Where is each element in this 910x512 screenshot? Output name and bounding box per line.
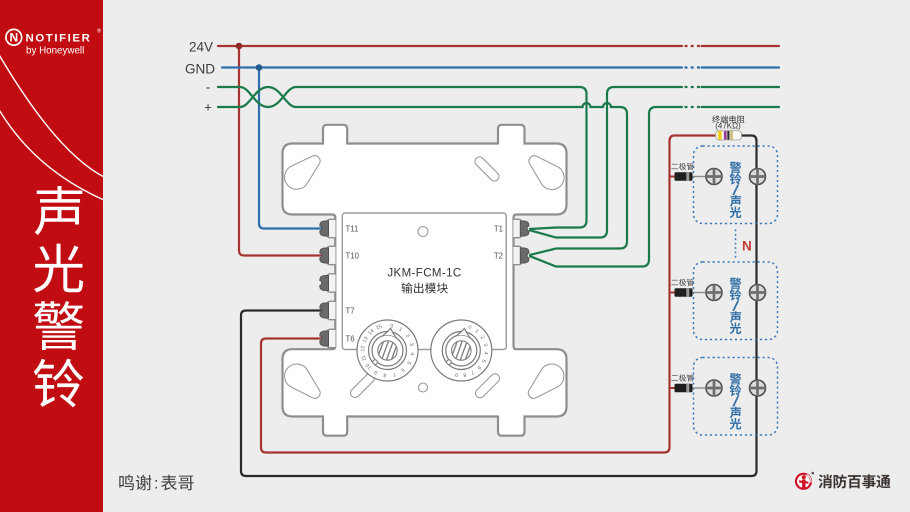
svg-text:T10: T10 (346, 252, 360, 261)
svg-text::: : (154, 476, 158, 493)
svg-text:T11: T11 (346, 225, 359, 234)
wire T6 red supply net (261, 136, 718, 453)
svg-text:+: + (204, 100, 212, 115)
terminal unlabeled (320, 274, 336, 292)
svg-text:NOTIFIER: NOTIFIER (26, 33, 92, 45)
label 二极管 (diode) (671, 163, 693, 170)
svg-text:24V: 24V (189, 40, 213, 55)
diode D3 (670, 384, 707, 393)
svg-text:12: 12 (360, 346, 366, 352)
svg-text:by Honeywell: by Honeywell (26, 46, 84, 57)
svg-text:-: - (206, 80, 210, 95)
module backplate (283, 125, 567, 436)
alarm bell 1 box 警铃/声光 (694, 146, 778, 224)
junction dot GND (256, 64, 263, 71)
ellipsis dotted line between bells (735, 230, 737, 259)
keyhole slot bottom-right (528, 364, 564, 398)
screw terminal - of bell 2 (750, 285, 766, 301)
wire T7 black return net (241, 136, 757, 477)
svg-text:T1: T1 (494, 225, 503, 234)
svg-text:GND: GND (185, 62, 215, 77)
svg-text:(47KΩ): (47KΩ) (715, 121, 741, 130)
wire GND bus (222, 66, 682, 68)
svg-text:N: N (742, 239, 752, 254)
label 二极管 (diode) (671, 279, 693, 286)
screw terminal - of bell 3 (750, 380, 766, 396)
svg-text:T6: T6 (346, 335, 355, 344)
wire loop plus with twist and hops (218, 87, 627, 255)
svg-text:JKM-FCM-1C: JKM-FCM-1C (387, 268, 461, 280)
rotary dial address high (0-15) (357, 320, 418, 381)
module top hole (418, 227, 428, 237)
NOTIFIER logo circle-N (6, 29, 22, 45)
module label 输出模块 (401, 283, 412, 294)
resistor 47K termination (716, 131, 742, 140)
oval slot top-right (475, 157, 499, 181)
wire 24V drop to T10 (239, 46, 326, 256)
plate hole bottom-center (419, 383, 428, 392)
red sidebar (0, 0, 103, 512)
svg-text:N: N (9, 31, 18, 45)
credit 鸣谢:表哥 (119, 475, 134, 491)
label 警铃/声光 (730, 373, 742, 429)
keyhole slot top-right (529, 156, 564, 190)
terminal T6 (320, 329, 336, 347)
rotary dial address low (0-9) (431, 320, 492, 381)
svg-text:T2: T2 (494, 252, 503, 261)
module JKM-FCM-1C body (342, 213, 506, 350)
screw terminal + of bell 3 (706, 380, 722, 396)
diode D1 (670, 172, 707, 181)
terminal T1 (513, 219, 529, 237)
terminal T10 (320, 246, 336, 264)
terminal T7 (320, 301, 336, 319)
消防百事通 logo icon (796, 472, 814, 489)
alarm bell 3 box 警铃/声光 (694, 358, 778, 436)
oval slot bottom-left (350, 373, 374, 397)
diode D2 (670, 288, 707, 297)
label 二极管 (diode) (671, 374, 693, 381)
wire loop plus return to T2 (530, 107, 682, 267)
label 警铃/声光 (730, 278, 742, 334)
wire GND drop to T11 (259, 68, 326, 229)
svg-text:®: ® (97, 28, 101, 35)
消防百事通 wordmark (818, 474, 832, 488)
sidebar title 声光警铃 (35, 186, 83, 235)
sidebar arc swoosh 1 (0, 53, 104, 177)
label 警铃/声光 (730, 162, 742, 218)
screw terminal + of bell 1 (706, 169, 722, 185)
junction dot 24V (236, 43, 243, 50)
keyhole slot top-left (285, 156, 321, 190)
terminal T2 (513, 246, 529, 264)
oval slot bottom-right (475, 374, 499, 398)
sidebar arc swoosh 2 (0, 108, 104, 200)
screw terminal - of bell 1 (750, 169, 766, 185)
wire loop minus with twist (218, 87, 587, 229)
resistor label 终端电阻 (712, 115, 720, 123)
wire 24V bus (218, 45, 682, 47)
screw terminal + of bell 2 (706, 285, 722, 301)
wire loop minus return to T1 (530, 87, 682, 238)
svg-text:T7: T7 (346, 307, 355, 316)
keyhole slot bottom-left (285, 364, 321, 398)
alarm bell 2 box 警铃/声光 (694, 262, 778, 340)
terminal T11 (320, 219, 336, 237)
